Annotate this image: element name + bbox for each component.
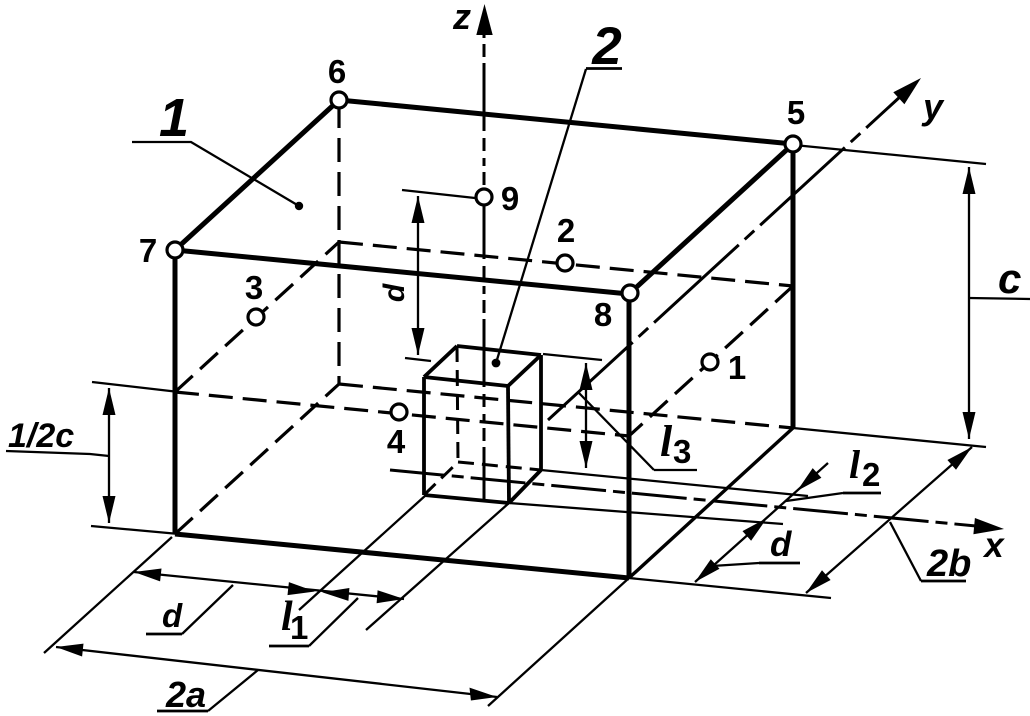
node: z axis centre line [483,30,486,500]
wire: dimension line 1/2c [108,388,110,523]
wire: extension from room front-left floor corner [44,537,172,653]
wire: extension line floor left corner for 1/2c [91,526,179,534]
node: dimension 2a right arrowhead [470,688,498,701]
node: dimension l3 top arrowhead [580,363,593,390]
svg-text:1/2c: 1/2c [8,417,74,455]
svg-text:y: y [921,86,945,127]
wire: mid-height plane left line through point 3 [175,242,339,392]
node: measuring point circle 1 [702,354,718,370]
svg-text:1: 1 [728,349,746,386]
wire: leader line of label d right [712,563,759,566]
wire: dimension line 2a [56,647,497,697]
wire: room top right edge 8-5 [629,144,793,294]
wire: small box top right depth edge [508,355,541,386]
wire: room top back edge 6-5 [339,100,793,144]
svg-text:8: 8 [594,296,612,333]
wire: small box front-left vertical edge [422,377,426,495]
node: dimension 2a left arrowhead [56,644,84,657]
node: measuring point circle 4 [391,404,407,420]
wire: hidden back-left vertical edge (dashed) [337,104,340,384]
wire: extension line small box top for l3 [543,354,602,360]
wire: small box bottom right depth edge [509,470,541,503]
wire: small box back-right vertical edge [539,355,543,470]
svg-text:l: l [660,417,673,466]
wire: dimension line d at z axis [417,196,419,355]
node: dimension c bottom arrowhead [963,412,976,439]
wire: leader line of label 2b [890,522,921,581]
wire: leader line of label l3 [578,392,654,470]
wire: dimension line 2b [806,447,972,593]
wire: underline of callout 2 [586,67,622,70]
svg-text:1: 1 [159,88,189,148]
wire: lower extension line for d at small box top [405,358,431,361]
wire: extension from room front-right floor corner for 2a [488,578,629,706]
node: dimension 1/2c bottom arrowhead [103,496,116,523]
node: dimension d/l2 middle arrowhead [743,518,768,541]
wire: room top left edge 6-7 [175,100,339,250]
node: dimension l3 bottom arrowhead [580,441,593,468]
svg-text:4: 4 [387,423,406,460]
wire: small box top left depth edge [424,346,457,377]
node: dimension l1 right arrowhead [377,590,404,603]
wire: chained dimension line for l2 and d outside right wall [695,463,828,582]
node: measuring point circle 9 [476,189,492,205]
wire: leader line of label 2a [208,670,258,711]
node: corner point circle 6 [331,92,347,108]
svg-text:1: 1 [290,609,308,646]
node: measuring point circle 2 [557,255,573,271]
node: dimension c top arrowhead [963,167,976,194]
wire: small box bottom front edge [424,495,509,503]
wire: underline of label l1 [269,645,309,648]
node: z axis arrowhead [476,4,492,35]
wire: leader line of label l2 [786,493,843,501]
wire: room back-right vertical edge [791,144,796,428]
wire: small box front-right vertical edge [508,386,509,503]
node: dimension d right-side bottom arrowhead [695,559,720,582]
wire: extension of floor back edge (reference for c and 2b) [793,428,986,447]
wire: hidden floor left edge (dashed) [175,384,339,534]
wire: extension of small box bottom front edge (line b) [509,503,783,524]
wire: dimension line d and l1 at bottom left [134,572,404,599]
wire: room floor front edge [175,534,629,578]
svg-text:2b: 2b [926,543,971,585]
wire: leader line of label l1 [309,598,358,646]
node: dimension d left arrowhead [134,569,162,582]
node: callout 1 leader dot [295,202,303,210]
svg-text:9: 9 [501,180,519,217]
wire: room floor right edge [629,428,793,578]
svg-text:2a: 2a [165,674,206,715]
wire: leader line of label c [969,298,1030,299]
svg-text:3: 3 [245,269,263,306]
wire: small box top front edge [424,377,508,386]
node: measuring point circle 3 [248,309,264,325]
node: dimension 2b top arrowhead [947,447,972,470]
svg-text:5: 5 [787,94,805,131]
svg-text:d: d [770,525,792,564]
node: dimension 2b bottom arrowhead [806,570,831,593]
wire: extension line from corner 5 for dimension c [794,145,986,164]
svg-text:z: z [452,0,471,37]
node: small box 2 top back-left to back-right edge [457,346,541,355]
svg-text:c: c [998,255,1021,302]
node: y axis centre line [548,95,902,420]
wire: extension from small box front-right bottom corner (line Q) [366,503,509,630]
wire: dimension line l3 [585,363,587,468]
node: corner point circle 7 [167,242,183,258]
wire: room front-right vertical edge [627,294,632,578]
wire: small box hidden bottom left depth edge [424,462,458,495]
wire: extension line mid-height left for 1/2c [92,382,179,392]
node: dimension d right arrowhead [288,582,316,595]
wire: leader line to measuring point 9 (l3 label underline) [654,469,697,471]
wire: dimension line c [968,167,970,439]
wire: underline of label 2a [157,710,208,713]
svg-text:l: l [849,442,861,487]
svg-text:3: 3 [673,433,691,470]
wire: extension of small box bottom back edge (line a) [541,470,808,496]
wire: room front-left vertical edge [173,250,178,534]
svg-text:x: x [982,526,1005,565]
wire: small box hidden bottom back edge [458,462,541,470]
wire: underline of label d left [146,633,182,636]
svg-text:2: 2 [591,17,621,76]
node: dimension l2 upper arrowhead [797,468,821,491]
wire: extension line to point 9 for d [402,190,475,198]
node: corner point circle 8 [622,285,638,301]
node: dimension l1 left arrowhead [322,588,349,601]
node: x axis arrowhead [973,518,1004,534]
wire: small box hidden back-left vertical edge [457,346,458,462]
svg-text:2: 2 [557,212,575,249]
node: dimension d bottom arrowhead at z axis [412,328,425,355]
wire: leader line of label 1/2c [6,451,109,456]
wire: extension from small box front-left bottom corner (line P) [299,495,426,610]
wire: hidden floor back edge (dashed) [339,384,793,428]
wire: leader line of label d left [182,585,233,634]
wire: extension of floor front edge [629,578,831,598]
wire: mid-height plane back line through point 2 [339,242,793,286]
wire: mid-height plane right line through point 1 [629,286,793,436]
svg-text:6: 6 [328,53,346,90]
node: dimension d top arrowhead at z axis [412,196,425,223]
wire: underline of label d right [759,562,800,565]
node: y axis arrowhead [893,78,921,104]
node: callout 2 leader dot [492,359,501,368]
svg-text:d: d [378,283,411,302]
node: dimension 1/2c top arrowhead [103,388,116,415]
wire: mid-height plane front line through point 4 [175,392,629,436]
node: x axis centre line [390,470,976,526]
svg-text:2: 2 [862,456,880,493]
node: corner point circle 5 [785,136,801,152]
svg-text:d: d [162,597,183,634]
svg-text:7: 7 [139,232,157,269]
wire: underline of label l2 [843,492,881,495]
wire: room top front edge 7-8 [175,250,629,294]
wire: underline of label 2b [921,580,966,583]
wire: leader line of callout 2 [496,69,586,363]
wire: leader line of callout 1 [132,142,299,206]
